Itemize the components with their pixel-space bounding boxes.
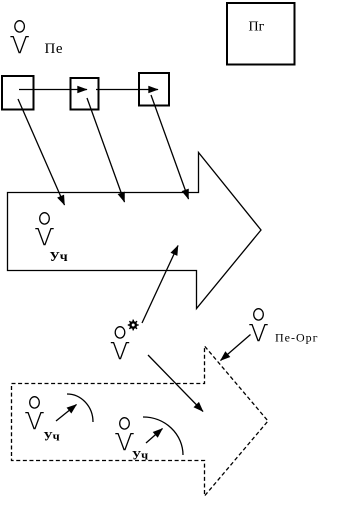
- svg-text:Пе-Орг: Пе-Орг: [275, 331, 319, 345]
- curved arrow right: arc: [143, 417, 183, 455]
- arrow box3 to solid arrow: [151, 95, 189, 199]
- arrow box1 to solid arrow: [18, 99, 65, 205]
- curved arrow left: arc: [67, 394, 93, 422]
- person Пе-Орг: [249, 309, 267, 341]
- curved arrow right: straight shaft: [146, 429, 163, 444]
- arrow organizer person to dashed arrow: [148, 355, 203, 412]
- arrow from organizer person up into solid arrow: [142, 246, 178, 324]
- arrow box2 to box3: [96, 89, 158, 91]
- arrow box1 to box2: [19, 89, 87, 91]
- box Пг: [227, 3, 295, 65]
- curved arrow left: straight shaft: [56, 405, 77, 422]
- person Уч (dashed arrow, right): [115, 418, 133, 450]
- arrow Пе-Орг to dashed arrow: [221, 335, 251, 361]
- svg-text:Пе: Пе: [45, 41, 64, 57]
- svg-text:Уч: Уч: [132, 449, 148, 463]
- big dashed arrow: [12, 346, 269, 496]
- svg-text:Уч: Уч: [50, 250, 68, 265]
- big solid arrow (process): [8, 153, 262, 309]
- gear icon: [128, 320, 139, 331]
- svg-text:Уч: Уч: [44, 430, 60, 444]
- arrow box2 to solid arrow: [87, 98, 125, 202]
- box 3: [139, 73, 169, 106]
- box 2: [71, 78, 99, 110]
- person Уч (inside solid arrow): [35, 213, 53, 245]
- svg-text:Пг: Пг: [249, 20, 265, 35]
- person organizer (with gear): [111, 327, 129, 359]
- box 1: [2, 76, 34, 110]
- person Пе (teacher, top-left): [10, 21, 28, 53]
- person Уч (dashed arrow, left): [25, 397, 43, 429]
